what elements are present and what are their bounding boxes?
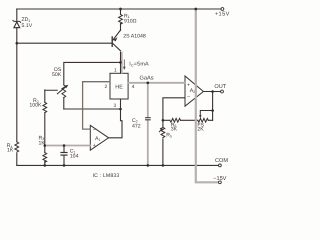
wire R2 top — [44, 90, 46, 102]
svg-text:4: 4 — [132, 84, 135, 90]
wire OS bottom to pin3 node — [64, 108, 121, 110]
transistor Q1 2SA1048 — [112, 30, 120, 51]
wire A2 output to OUT — [204, 91, 221, 93]
arrowhead OS wiper — [64, 85, 68, 89]
svg-text:50K: 50K — [52, 72, 62, 78]
svg-text:A2: A2 — [190, 88, 195, 94]
gray highlighted wires — [45, 9, 219, 182]
resistor R6 3K — [163, 118, 198, 122]
svg-text:GaAs: GaAs — [140, 76, 154, 82]
junction C1 top — [63, 144, 66, 147]
svg-text:A1: A1 — [95, 136, 100, 142]
svg-text:IC : LM833: IC : LM833 — [93, 173, 120, 179]
arrowhead FS wiper — [199, 115, 202, 118]
junction R1 top on +15V rail — [119, 8, 122, 11]
arrowhead Q1 emitter — [113, 37, 117, 41]
resistor R4 — [15, 142, 19, 152]
wire GaAs node to C2 — [147, 83, 149, 117]
svg-text:+: + — [93, 143, 96, 149]
op-amp A2 — [185, 76, 203, 106]
svg-text:2: 2 — [105, 84, 108, 90]
svg-text:910Ω: 910Ω — [124, 19, 137, 25]
wire R2 to R3 — [44, 113, 46, 153]
wire HE pin1 gray — [121, 53, 123, 74]
junction R5/R6/A2- node — [162, 119, 165, 122]
wire collector node to OS pot — [64, 62, 121, 85]
junction C2 on COM rail — [147, 164, 150, 167]
junction supply line on +15V rail — [194, 8, 197, 11]
wire R3 to rail — [44, 161, 46, 165]
svg-text:−15V: −15V — [213, 176, 226, 182]
node GaAs — [146, 81, 149, 84]
trimmer R5 — [159, 120, 164, 165]
wire bottom COM rail — [17, 164, 219, 166]
capacitor C2 472 plates — [145, 118, 151, 120]
junction HE pin3 / A1 output node — [119, 108, 122, 111]
wire A1 output to pin3 node — [109, 109, 122, 138]
wire C2 to rail — [147, 121, 149, 166]
wire OUT node down to FS — [212, 92, 214, 121]
svg-text:R5: R5 — [166, 133, 172, 139]
wire base of Q1 — [17, 42, 112, 44]
potentiometer FS 2K — [198, 118, 213, 122]
wire OS wiper — [45, 86, 67, 94]
svg-text:104: 104 — [70, 154, 79, 160]
junction R2/R3/A1+ node — [44, 144, 47, 147]
wire HE pin3 — [120, 99, 122, 109]
svg-text:472: 472 — [132, 124, 141, 130]
svg-text:+: + — [187, 83, 190, 89]
svg-text:−: − — [187, 95, 190, 101]
junction FS wiper node — [211, 109, 214, 112]
svg-text:2K: 2K — [197, 127, 204, 133]
svg-text:COM: COM — [215, 158, 228, 164]
svg-text:1: 1 — [114, 67, 117, 73]
junction R3 on COM rail — [44, 164, 47, 167]
wire top +15V rail — [17, 8, 221, 10]
resistor R2 100K — [43, 102, 47, 112]
terminal COM — [219, 164, 222, 167]
resistor R1 910ohm — [119, 9, 123, 31]
svg-text:1K: 1K — [39, 141, 46, 147]
svg-text:100K: 100K — [29, 102, 42, 108]
terminal +15V — [221, 8, 224, 11]
wire HE pin4 GaAs node to A2 — [128, 82, 185, 84]
op-amp A1 — [90, 125, 108, 150]
resistor R3 1K — [43, 153, 47, 163]
svg-text:OUT: OUT — [214, 84, 226, 90]
svg-text:3K: 3K — [171, 127, 178, 133]
arrowhead R5 wiper — [160, 127, 163, 130]
wire A2 inverting input feedback — [163, 98, 185, 121]
svg-text:−: − — [93, 128, 96, 134]
junction R5 on COM rail — [162, 164, 165, 167]
svg-text:IC=5mA: IC=5mA — [129, 62, 149, 68]
svg-text:3: 3 — [114, 103, 117, 109]
svg-text:HE: HE — [115, 84, 123, 90]
junction OUT node — [211, 90, 214, 93]
wire HE pin2 to A1 inverting input — [83, 82, 110, 129]
wire power rail to -15V — [196, 9, 219, 182]
wire A1 non-inverting input — [45, 145, 91, 147]
junction ZD1/Q1 base node — [15, 42, 18, 45]
wire R4 to bottom rail — [16, 153, 18, 165]
current arrow IC=5mA — [123, 59, 126, 70]
svg-text:5.1V: 5.1V — [22, 23, 33, 29]
svg-text:1K: 1K — [7, 148, 14, 154]
capacitor C1 104 — [61, 146, 67, 166]
junction Q1 collector / OS node — [119, 61, 122, 64]
wire collector to HE pin1 — [120, 52, 122, 73]
junction C1 on COM rail — [63, 164, 66, 167]
zener diode ZD1 — [13, 20, 21, 27]
Hall element HE box — [110, 73, 128, 99]
svg-text:2S A1048: 2S A1048 — [123, 33, 146, 39]
terminal OUT — [221, 90, 224, 93]
wire zener branch upper — [16, 9, 18, 21]
svg-text:+15V: +15V — [215, 11, 230, 17]
wire FS wiper loop — [200, 111, 212, 116]
wire zener to R4 — [16, 28, 18, 142]
terminal -15V — [219, 181, 222, 184]
potentiometer OS 50K — [62, 85, 66, 109]
